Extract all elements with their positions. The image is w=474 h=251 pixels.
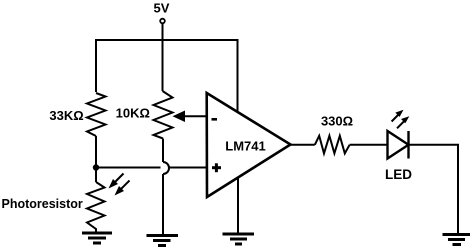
- ground (middle): [147, 236, 179, 246]
- svg-text:LM741: LM741: [225, 139, 265, 154]
- wire hop (crossover, no connection): [163, 162, 169, 174]
- wire 330Ω to LED anode: [350, 144, 388, 146]
- svg-text:330Ω: 330Ω: [321, 114, 353, 129]
- photoresistor light arrows: [109, 174, 130, 196]
- ground (op-amp): [223, 234, 255, 244]
- junction node A: [93, 164, 99, 170]
- 5V terminal: [160, 19, 165, 24]
- resistor R1 33KΩ: [87, 93, 106, 136]
- op-amp inverting pin mark: [212, 118, 218, 121]
- wire pot bottom to crossover: [162, 139, 164, 163]
- resistor R4 330Ω: [315, 136, 350, 154]
- svg-text:Photoresistor: Photoresistor: [2, 197, 83, 211]
- wire top supply rail: [96, 40, 238, 112]
- op-amp non-inverting pin mark: [212, 163, 221, 172]
- ground (photoresistor): [82, 233, 112, 243]
- svg-text:5V: 5V: [154, 1, 170, 16]
- svg-text:10KΩ: 10KΩ: [116, 106, 150, 121]
- LED D1: [388, 131, 409, 159]
- wire op-amp output to 330Ω: [291, 144, 315, 146]
- LED light arrows: [392, 110, 410, 129]
- wire 5V terminal down to 10K pot top: [162, 24, 164, 92]
- wire 33K bottom to junction and photoresistor top: [95, 136, 97, 182]
- op-amp U1: [207, 93, 291, 197]
- wire node A to op-amp non-inverting input: [96, 167, 161, 169]
- potentiometer wiper arrow to op-amp inverting input: [173, 111, 186, 123]
- wire LED cathode to right ground: [409, 145, 459, 235]
- wire op-amp V- to ground: [237, 178, 239, 235]
- svg-text:33KΩ: 33KΩ: [49, 108, 83, 123]
- ground (LED return): [443, 235, 471, 245]
- photoresistor R2: [87, 182, 105, 233]
- svg-text:LED: LED: [385, 167, 412, 182]
- wire crossover to middle ground: [162, 174, 164, 236]
- potentiometer R3 10KΩ: [154, 91, 173, 139]
